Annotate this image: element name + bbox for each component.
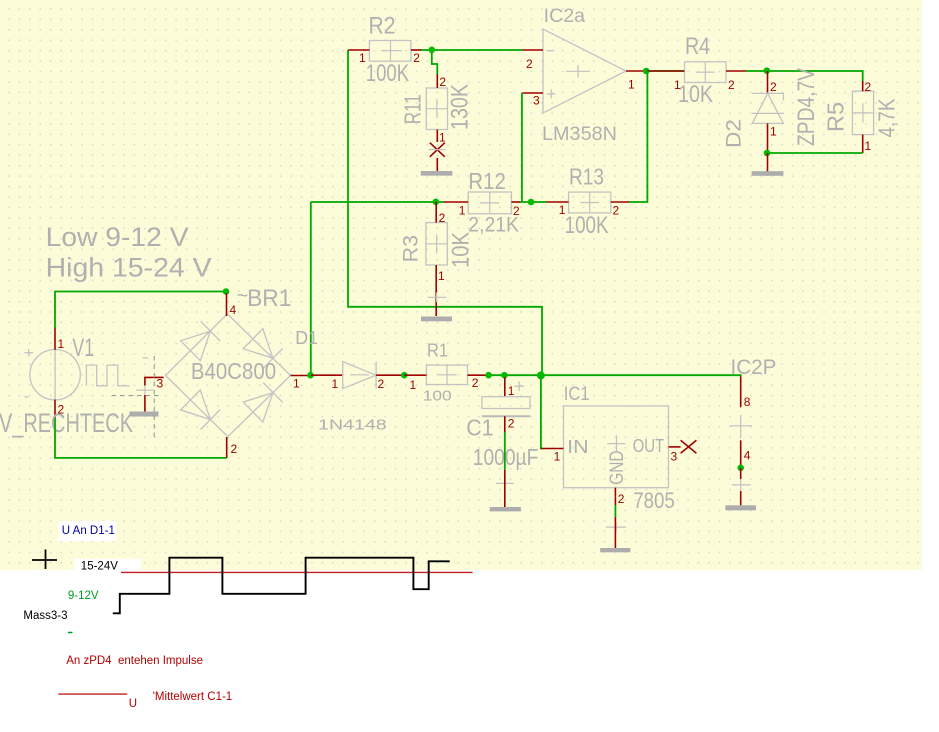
svg-text:R13: R13 — [569, 164, 604, 190]
svg-text:1: 1 — [58, 337, 65, 351]
ground below R3 — [421, 293, 452, 322]
wire net VOUT: op-amp output row — [647, 70, 685, 72]
BR1 diode bottom-right — [243, 383, 283, 423]
svg-text:R12: R12 — [468, 168, 505, 194]
dashed frame cross — [112, 356, 159, 437]
wire net N$2: R2 pin1 left vertical feedback — [348, 50, 542, 376]
wire net mid row horizontal at y=202 — [311, 201, 444, 203]
wire net: C1 pin2 to ground — [504, 432, 506, 470]
resistor R2 — [348, 41, 421, 62]
svg-text:Low 9-12 V: Low 9-12 V — [46, 222, 189, 252]
svg-text:An zPD4 entehen Impulse: An zPD4 entehen Impulse — [66, 655, 203, 667]
svg-text:2: 2 — [770, 80, 777, 94]
junction at D1 anode node — [307, 372, 314, 379]
resistor R11 — [426, 74, 447, 142]
ground below C1 — [490, 470, 521, 511]
svg-text:2: 2 — [613, 204, 620, 218]
green minus tick — [68, 632, 73, 634]
junction after R1 — [485, 372, 492, 379]
wire net N$3: jog down to R11 — [432, 50, 438, 74]
svg-text:2: 2 — [378, 377, 385, 391]
svg-text:GND: GND — [607, 450, 628, 484]
svg-text:1: 1 — [359, 51, 366, 65]
svg-text:BR1: BR1 — [247, 285, 291, 312]
ground below IC2P — [725, 468, 756, 511]
svg-text:4,7K: 4,7K — [874, 98, 900, 138]
svg-text:9-12V: 9-12V — [68, 590, 99, 602]
resistor R5 — [852, 81, 873, 153]
svg-text:2: 2 — [413, 51, 420, 65]
svg-text:130K: 130K — [447, 84, 474, 130]
junction at D2 anode/ground — [764, 150, 771, 157]
junction after D1 — [401, 372, 408, 379]
junction at R3 top node — [433, 199, 440, 206]
voltage source V1 — [25, 328, 130, 418]
diode D1 — [311, 362, 404, 389]
svg-text:V1: V1 — [72, 334, 94, 362]
svg-text:R1: R1 — [427, 340, 448, 360]
resistor R1 — [404, 365, 488, 384]
svg-text:D2: D2 — [723, 119, 746, 148]
svg-text:High 15-24 V: High 15-24 V — [46, 253, 212, 283]
ground below D2 — [752, 153, 784, 176]
schematic yellow sheet — [0, 0, 922, 570]
svg-text:1: 1 — [628, 78, 635, 92]
svg-text:IC2a: IC2a — [544, 6, 586, 27]
svg-text:4: 4 — [230, 303, 237, 317]
svg-text:1N4148: 1N4148 — [318, 417, 387, 434]
svg-text:1: 1 — [439, 131, 446, 145]
black crosshair — [32, 550, 57, 570]
svg-text:8: 8 — [744, 395, 751, 409]
svg-text:3: 3 — [533, 94, 540, 108]
svg-text:V_RECHTECK: V_RECHTECK — [0, 408, 133, 438]
capacitor C1 — [482, 377, 530, 432]
waveform overlay: probe label box U An D1-1 — [59, 521, 117, 542]
junction at IC1 branch — [537, 371, 545, 379]
svg-text:ZPD4,7V: ZPD4,7V — [793, 68, 820, 146]
wire net: junction down to IC1 IN — [541, 375, 543, 448]
junction at R2 pin2 node — [429, 47, 436, 54]
svg-text:C1: C1 — [466, 414, 493, 440]
svg-text:2: 2 — [526, 57, 533, 71]
junction at IC2P pin4/ground — [737, 465, 744, 472]
svg-text:2: 2 — [865, 80, 872, 94]
svg-text:1: 1 — [332, 377, 339, 391]
svg-text:1: 1 — [770, 125, 777, 139]
svg-text:D1: D1 — [295, 328, 318, 348]
junction at D2 cathode node — [764, 67, 771, 74]
svg-text:2: 2 — [513, 204, 520, 218]
no-connect X on IC1 pin 3 — [681, 440, 697, 453]
junction at op-amp output — [643, 68, 650, 75]
svg-text:1: 1 — [508, 384, 515, 398]
svg-text:R3: R3 — [400, 235, 423, 262]
wire net: R5 bottom to D2 anode — [768, 152, 863, 154]
svg-text:1: 1 — [674, 78, 681, 92]
svg-text:100: 100 — [423, 387, 452, 404]
wire net AC bottom: V1 pin2 to BR1 pin2 — [55, 418, 227, 458]
svg-text:U An D1-1: U An D1-1 — [62, 525, 115, 537]
svg-text:2: 2 — [472, 376, 479, 390]
BR1 diode top-left — [181, 321, 221, 361]
zener diode D2 — [752, 71, 784, 153]
svg-text:10K: 10K — [448, 232, 475, 268]
svg-text:2,21K: 2,21K — [468, 214, 519, 237]
red mean segment — [58, 693, 127, 695]
svg-text:10K: 10K — [678, 81, 713, 108]
svg-text:100K: 100K — [565, 212, 609, 239]
power symbol IC2P — [730, 377, 752, 468]
resistor R4 — [647, 62, 746, 83]
svg-text:3: 3 — [157, 377, 164, 391]
svg-text:1: 1 — [410, 378, 417, 392]
wire net ZD: R4 pin2 to R5 top — [746, 71, 863, 82]
svg-text:1: 1 — [293, 377, 300, 391]
bridge rectifier BR1 diamond — [145, 293, 311, 458]
resistor R3 — [426, 202, 447, 316]
BR1 diode bottom-left — [181, 390, 221, 430]
svg-text:2: 2 — [618, 492, 625, 506]
svg-text:2: 2 — [439, 75, 446, 89]
svg-text:IN: IN — [567, 437, 589, 457]
ground at BR1 pin3 — [130, 385, 159, 416]
ground below R11 — [421, 158, 453, 176]
junction at BR1 pin 4 corner — [223, 288, 230, 295]
svg-text:1: 1 — [554, 450, 561, 464]
svg-text:U: U — [129, 698, 137, 710]
svg-text:R5: R5 — [823, 102, 849, 132]
wire net: IC1 GND pin to ground — [614, 505, 616, 517]
svg-text:LM358N: LM358N — [542, 124, 617, 145]
svg-text:2: 2 — [508, 417, 515, 431]
svg-text:OUT: OUT — [633, 436, 665, 456]
svg-text:1: 1 — [438, 269, 445, 283]
voltage regulator IC1 — [541, 406, 681, 496]
svg-text:'Mittelwert C1-1: 'Mittelwert C1-1 — [153, 691, 233, 703]
svg-text:2: 2 — [58, 403, 65, 417]
svg-text:1: 1 — [865, 139, 872, 153]
junction at C1 tap — [501, 372, 508, 379]
svg-text:R11: R11 — [400, 94, 426, 124]
svg-text:IC1: IC1 — [564, 384, 590, 405]
wire net N$3: R2 pin2 to IC2a -IN horizontal — [420, 49, 523, 51]
op-amp IC2a — [522, 29, 647, 113]
no-connect X on R11 pin 1 — [429, 143, 446, 157]
wire net mid row: left vertical from R12 row down to D1 row — [310, 202, 312, 375]
svg-text:3: 3 — [671, 449, 678, 463]
minus mark near dashed cross — [143, 357, 149, 359]
svg-text:15-24V: 15-24V — [81, 561, 118, 573]
svg-text:B40C800: B40C800 — [191, 358, 276, 384]
svg-text:2: 2 — [728, 78, 735, 92]
svg-text:7805: 7805 — [633, 488, 675, 513]
svg-text:R2: R2 — [369, 12, 396, 39]
red mean level line — [121, 571, 473, 573]
svg-text:2: 2 — [439, 211, 446, 225]
svg-text:2: 2 — [231, 442, 238, 456]
wire net VIN: R1 pin2 to IC2P pin8 — [489, 375, 741, 377]
label box 15-24V — [75, 559, 142, 571]
wire segment R13 pin2 up to op-amp output — [629, 71, 648, 202]
black square waveform — [113, 558, 450, 614]
svg-text:100K: 100K — [366, 60, 409, 87]
svg-text:1: 1 — [459, 204, 466, 218]
junction where IC2a +IN meets R12/R13 — [528, 199, 535, 206]
svg-text:R4: R4 — [685, 33, 710, 60]
svg-text:1: 1 — [559, 203, 566, 217]
resistor R13 — [546, 192, 629, 213]
wire segment between R12 pin2 and R13 pin1 — [520, 201, 546, 203]
resistor R12 — [444, 192, 521, 214]
wire net: IC2a +IN down to R12/R13 row — [521, 93, 523, 202]
ground below IC1 — [600, 517, 630, 552]
svg-text:Mass3-3: Mass3-3 — [23, 610, 67, 622]
svg-text:IC2P: IC2P — [731, 356, 777, 379]
wire net AC top: V1 pin1 to BR1 pin4 — [55, 292, 226, 329]
BR1 diode top-right — [243, 329, 283, 369]
svg-text:4: 4 — [744, 448, 751, 462]
